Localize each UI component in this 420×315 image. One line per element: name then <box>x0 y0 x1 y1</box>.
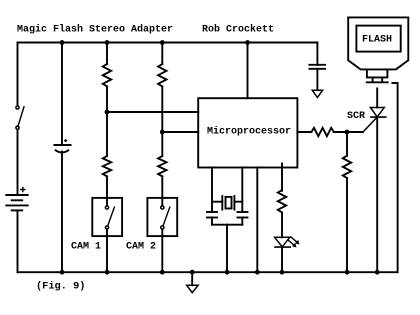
svg-text:Rob Crockett: Rob Crockett <box>202 24 274 36</box>
svg-text:SCR: SCR <box>347 111 365 122</box>
svg-text:CAM 2: CAM 2 <box>126 242 156 253</box>
svg-text:(Fig. 9): (Fig. 9) <box>36 281 86 293</box>
svg-text:FLASH: FLASH <box>362 35 392 46</box>
svg-text:CAM 1: CAM 1 <box>71 242 101 253</box>
svg-text:Magic Flash Stereo Adapter: Magic Flash Stereo Adapter <box>17 24 173 36</box>
svg-text:Microprocessor: Microprocessor <box>207 126 291 138</box>
